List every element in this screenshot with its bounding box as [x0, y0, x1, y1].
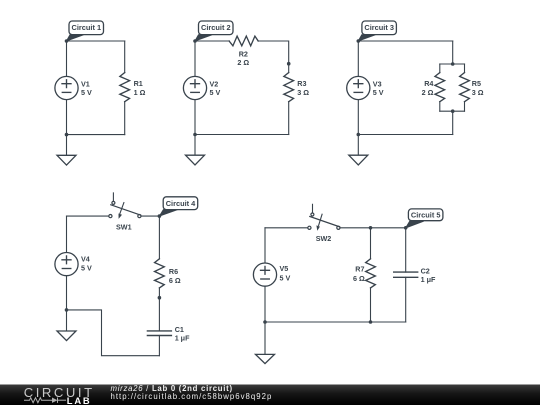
voltage source V4 [55, 253, 78, 276]
svg-text:V1: V1 [81, 79, 90, 88]
node bottom-left c2 [193, 133, 197, 137]
wire top-right c4 [141, 215, 159, 217]
svg-text:Circuit 1: Circuit 1 [72, 23, 102, 32]
switch SW1 [112, 193, 114, 202]
svg-text:1 μF: 1 μF [421, 275, 436, 284]
wire left-lower c5 [264, 286, 266, 322]
node top-left c3 [357, 39, 361, 43]
node parallel top c3 [451, 62, 455, 66]
svg-text:Circuit 5: Circuit 5 [411, 211, 441, 220]
wire right-lower c1 [124, 102, 126, 135]
svg-text:2 Ω: 2 Ω [422, 88, 434, 97]
svg-text:http://circuitlab.com/c58bwp6v: http://circuitlab.com/c58bwp6v8q92p [111, 392, 273, 401]
node C2 top c5 [404, 226, 408, 230]
svg-text:5 V: 5 V [373, 88, 384, 97]
wire left-upper c1 [66, 41, 68, 76]
svg-text:LAB: LAB [67, 395, 92, 405]
resistor R5 [460, 73, 470, 102]
svg-text:SW2: SW2 [316, 234, 332, 243]
voltage source V2 [183, 76, 206, 99]
resistor R6 [155, 259, 165, 288]
switch SW2 [312, 204, 314, 213]
node bottom-left c5 [263, 320, 267, 324]
node R7 top c5 [369, 226, 373, 230]
wire left-upper c3 [357, 41, 359, 76]
svg-text:R5: R5 [472, 79, 481, 88]
flag Circuit 1 [67, 21, 104, 41]
resistor R2 [229, 36, 258, 46]
wire R4 bottom stub [439, 102, 441, 112]
ground c2 [186, 155, 205, 165]
capacitor C2 [394, 272, 418, 277]
node mid branch c4 [158, 296, 162, 300]
svg-text:5 V: 5 V [81, 88, 92, 97]
wire top c3 [358, 40, 452, 42]
svg-text:V3: V3 [373, 79, 382, 88]
svg-text:V4: V4 [81, 255, 90, 264]
wire right-lower c3 [452, 111, 454, 134]
svg-text:R6: R6 [169, 267, 178, 276]
flag Circuit 3 [358, 21, 396, 41]
wire R5 bottom stub [464, 102, 466, 112]
svg-text:3 Ω: 3 Ω [297, 88, 309, 97]
wire ground stub c4 [66, 310, 68, 331]
svg-text:6 Ω: 6 Ω [353, 274, 365, 283]
wire ground stub c1 [66, 135, 68, 156]
flag Circuit 5 [406, 209, 443, 228]
svg-text:V2: V2 [210, 79, 219, 88]
voltage source V1 [55, 76, 78, 99]
voltage source V3 [347, 76, 370, 99]
wire left-lower c2 [194, 100, 196, 135]
wire top-right c5 [340, 227, 406, 229]
svg-text:R1: R1 [134, 79, 143, 88]
wire C2 branch upper c5 [405, 228, 407, 272]
wire R4 top stub [439, 64, 441, 73]
wire bottom c5 [265, 321, 406, 323]
svg-text:2 Ω: 2 Ω [237, 58, 249, 67]
node top-left c1 [65, 39, 69, 43]
svg-text:5 V: 5 V [81, 264, 92, 273]
svg-text:Circuit 2: Circuit 2 [201, 23, 231, 32]
wire right-upper c1 [124, 41, 126, 73]
resistor R3 [284, 73, 294, 102]
wire top-left c2 [195, 40, 229, 42]
capacitor C1 [147, 331, 171, 336]
flag Circuit 4 [159, 197, 197, 216]
svg-text:1 Ω: 1 Ω [134, 88, 146, 97]
wire parallel bottom bar c3 [440, 110, 465, 112]
ground c5 [256, 354, 275, 363]
voltage source V5 [253, 263, 276, 286]
wire bottom c2 [195, 134, 289, 136]
node bottom-left c3 [357, 133, 361, 137]
wire bottom path c4 [67, 310, 160, 356]
wire top-left c4 [67, 215, 109, 217]
ground c3 [349, 155, 368, 165]
wire R7 lower c5 [370, 288, 372, 322]
wire R7 branch upper c5 [370, 228, 372, 259]
svg-text:1 μF: 1 μF [175, 334, 190, 343]
svg-text:5 V: 5 V [280, 274, 291, 283]
wire left-lower c1 [66, 100, 68, 135]
wire R6 branch upper c4 [158, 216, 160, 259]
svg-text:Circuit 4: Circuit 4 [166, 199, 196, 208]
svg-text:R4: R4 [424, 79, 433, 88]
wire bottom c3 [358, 134, 452, 136]
wire parallel top bar c3 [440, 63, 465, 65]
wire R5 top stub [464, 64, 466, 73]
svg-text:5 V: 5 V [210, 88, 221, 97]
wire top c1 [67, 40, 125, 42]
wire right-lower c2 [288, 102, 290, 135]
svg-text:R3: R3 [297, 79, 306, 88]
wire R6-C1 c4 [158, 288, 160, 331]
ground c1 [57, 155, 76, 165]
svg-text:R2: R2 [239, 49, 248, 58]
svg-text:Circuit 3: Circuit 3 [364, 23, 394, 32]
flag Circuit 2 [195, 21, 233, 41]
node top-left c2 [193, 39, 197, 43]
node right branch c2 [287, 62, 291, 66]
svg-text:SW1: SW1 [116, 222, 132, 231]
logo squiggle resistor+diode [24, 398, 66, 403]
ground c4 [57, 331, 76, 341]
wire left-upper c5 [264, 228, 266, 263]
wire bottom c1 [67, 134, 125, 136]
svg-text:3 Ω: 3 Ω [472, 88, 484, 97]
svg-text:V5: V5 [280, 264, 289, 273]
wire C2 lower c5 [405, 277, 407, 322]
wire left-upper c2 [194, 41, 196, 76]
wire right-upper c3 [452, 41, 454, 64]
wire left-lower c3 [357, 100, 359, 135]
wire top-left c5 [265, 227, 308, 229]
resistor R7 [366, 259, 376, 288]
wire top-right c2 [258, 41, 289, 73]
wire ground stub c5 [264, 322, 266, 354]
svg-text:6 Ω: 6 Ω [169, 276, 181, 285]
bottom bar [0, 385, 540, 405]
node top branch c4 [158, 214, 162, 218]
resistor R4 [435, 73, 445, 102]
svg-text:R7: R7 [355, 265, 364, 274]
node parallel bottom c3 [451, 109, 455, 113]
wire ground stub c3 [357, 135, 359, 156]
node R7 bottom c5 [369, 320, 373, 324]
wire C1 bottom c4 [158, 336, 160, 356]
node bottom-left c4 [65, 308, 69, 312]
node bottom-left c1 [65, 133, 69, 137]
wire left-lower c4 [66, 276, 68, 310]
wire ground stub c2 [194, 135, 196, 156]
wire left-upper c4 [66, 216, 68, 252]
resistor R1 [120, 73, 130, 102]
